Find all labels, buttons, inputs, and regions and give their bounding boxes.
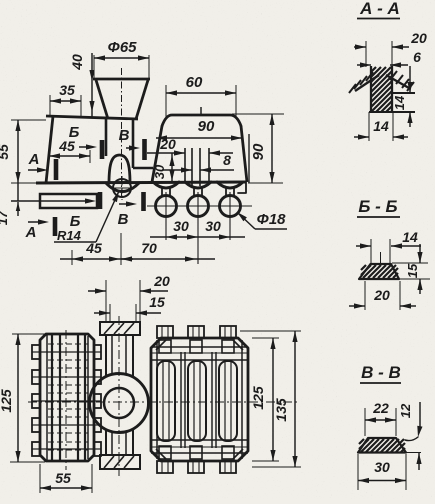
plan: front block horizontal dashes: [48, 343, 88, 345]
rear wheel arch 2: [185, 182, 211, 188]
plan: front block inner edge: [46, 334, 48, 461]
side view: funnel left slope: [96, 80, 108, 119]
side view: body baseline: [36, 182, 246, 183]
plan: funnel outer circle: [90, 374, 149, 433]
cab roof center tick: [200, 107, 202, 116]
side view: steam dome arch: [109, 155, 130, 183]
front buffer plate: [40, 194, 97, 208]
side view: funnel base column right edge: [132, 119, 135, 168]
cab rear inner vertical: [248, 134, 250, 183]
plan: cross band top cap: [100, 322, 140, 335]
cab right wall: [241, 126, 247, 182]
cab left wall: [152, 126, 162, 182]
plan: cab tab seats: [159, 340, 171, 353]
rear wheel 2: [188, 196, 209, 217]
A-A right wing: [386, 75, 409, 88]
plan: cab top wheel tabs: [157, 326, 173, 338]
rear wheel arch 1: [153, 182, 179, 188]
A-A base bottom line: [369, 111, 415, 113]
front fender arc R14: [106, 183, 139, 192]
plan: front block left tabs: [32, 345, 40, 359]
rear wheel 1: [156, 196, 177, 217]
plan: cab block inner rect: [156, 340, 158, 459]
side view: funnel centerline: [121, 68, 123, 199]
V-V trapezoid hatched: [358, 438, 406, 453]
axle stubs: [161, 188, 163, 196]
side view: front box left face: [46, 116, 53, 183]
A-A base right top line: [392, 92, 415, 94]
section arrow B lower / buffer midline: [11, 200, 92, 202]
plan: cab corner inner chamfers: [156, 340, 166, 350]
plan: cross band bottom cap: [100, 455, 140, 469]
plan: cab inner verticals: [180, 352, 182, 448]
plan: vertical centerline: [118, 316, 120, 476]
plan: front block right tabs: [94, 345, 101, 359]
side view: front box top edge: [46, 116, 138, 119]
plan: cab block outline: [151, 338, 248, 461]
wheel 3 center vertical: [229, 192, 231, 240]
B-B trapezoid hatched: [359, 264, 399, 279]
plan: front block centerline: [65, 330, 67, 470]
plan: cross band verticals: [105, 335, 107, 376]
side view: funnel top edge: [93, 78, 150, 81]
wheel 2 center vertical: [197, 192, 199, 264]
plan: cab bottom wheel tabs: [157, 461, 173, 473]
rear wheel arch 3: [217, 182, 243, 188]
cab rear step: [238, 182, 246, 193]
cab roof: [162, 115, 241, 126]
front wheel: [113, 179, 131, 197]
A-A left wing: [355, 75, 379, 91]
plan: horizontal centerline: [28, 401, 300, 403]
plan: funnel inner circle: [104, 388, 134, 418]
side view: low deck line: [133, 167, 153, 170]
plan: front block tab-level lines: [40, 351, 94, 353]
side view: funnel right slope: [136, 80, 148, 119]
coupling verticals between units: [184, 148, 186, 182]
side view: funnel base column left edge: [105, 119, 108, 156]
V-V bottom edge extension: [406, 452, 421, 454]
rear wheel 3: [220, 196, 241, 217]
wheel axle line: [147, 205, 252, 207]
A-A profile column hatched: [370, 66, 372, 112]
front wheel center cross: [121, 176, 123, 200]
wheel 1 center vertical: [165, 192, 167, 240]
plan: cab extra horizontal: [151, 352, 248, 354]
plan: front block outline: [40, 334, 94, 461]
paper grain texture: [0, 0, 1, 1]
plan: cab wheels (top view): [157, 361, 175, 441]
plan: front block ring stripes: [51, 334, 53, 461]
